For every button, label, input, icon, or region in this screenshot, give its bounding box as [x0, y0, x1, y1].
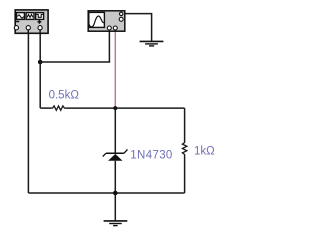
- wire: function generator common terminal down to bottom rail: [27, 30, 29, 193]
- wire: top resistor row right segment to load column: [66, 107, 185, 109]
- node junction dot at bottom rail / ground: [113, 191, 118, 196]
- node junction dot at zener top: [113, 106, 117, 110]
- wire: oscilloscope ground terminal to top-right ground: [125, 14, 152, 41]
- label 1kΩ: [194, 145, 215, 157]
- wire: function generator + terminal down to resistor row: [39, 30, 41, 108]
- resistor 0.5kΩ zigzag: [52, 106, 66, 110]
- label 0.5kΩ: [49, 89, 80, 101]
- wire: bottom rail: [28, 192, 184, 194]
- wire: zener bottom lead: [114, 161, 116, 193]
- wire: right column lower lead to bottom rail: [184, 156, 186, 194]
- wire (red): oscilloscope channel B down to zener top node: [114, 30, 116, 108]
- wire: junction to oscilloscope channel A input: [40, 30, 109, 62]
- oscilloscope instrument: [88, 11, 125, 32]
- svg-text:1kΩ: 1kΩ: [194, 145, 215, 157]
- node junction dot at FG+ branch: [38, 60, 43, 65]
- svg-text:0.5kΩ: 0.5kΩ: [49, 89, 80, 101]
- resistor 1kΩ zigzag (vertical): [182, 142, 186, 156]
- svg-text:1N4730: 1N4730: [130, 149, 172, 161]
- function generator instrument: [14, 10, 48, 34]
- zener diode 1N4730: [103, 150, 128, 161]
- ground (top right): [140, 41, 164, 46]
- ground (bottom): [104, 193, 128, 226]
- wire: top resistor row left segment: [40, 107, 51, 109]
- label 1N4730: [130, 149, 172, 161]
- wire: right column upper lead: [184, 108, 186, 141]
- wire: zener top lead: [114, 108, 116, 153]
